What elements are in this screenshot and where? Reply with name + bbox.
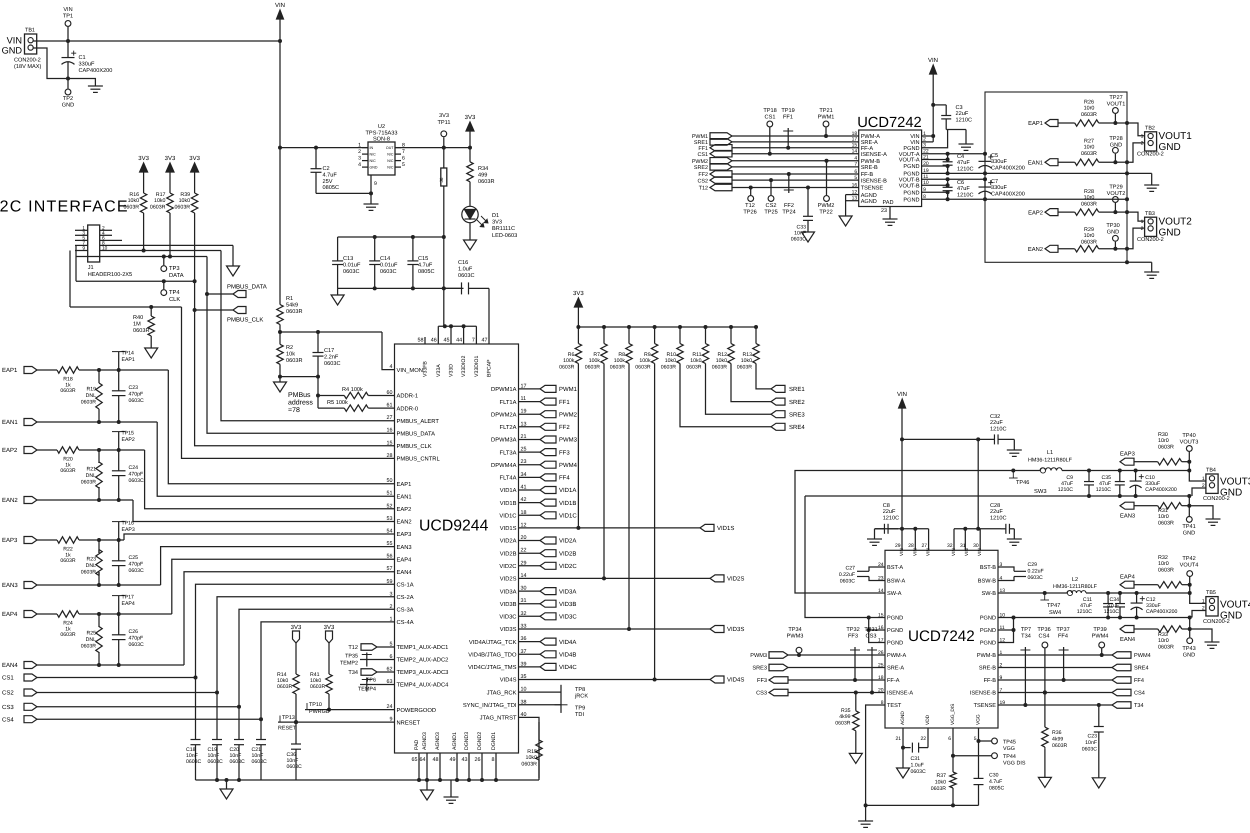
svg-text:R31: R31 (1158, 508, 1168, 514)
svg-text:TP14: TP14 (122, 351, 135, 357)
svg-text:0603R: 0603R (931, 786, 947, 792)
svg-text:0603R: 0603R (60, 558, 76, 564)
svg-text:0603C: 0603C (791, 237, 807, 243)
svg-text:EAN4: EAN4 (1120, 637, 1136, 643)
svg-text:C24: C24 (129, 465, 139, 471)
svg-text:R40: R40 (133, 315, 143, 321)
svg-text:VID2S: VID2S (727, 576, 744, 583)
svg-text:29: 29 (895, 543, 901, 549)
svg-text:0603R: 0603R (559, 364, 575, 370)
svg-text:TP16: TP16 (122, 521, 135, 527)
svg-text:TP13: TP13 (282, 715, 295, 721)
svg-text:ISENSE-B: ISENSE-B (861, 178, 887, 184)
svg-text:10k0: 10k0 (154, 198, 166, 204)
svg-text:R16: R16 (129, 192, 139, 198)
svg-text:10k0: 10k0 (179, 198, 191, 204)
svg-text:0603C: 0603C (129, 398, 145, 404)
svg-text:EAN4: EAN4 (397, 570, 413, 576)
svg-text:EAP1: EAP1 (122, 357, 135, 363)
svg-text:PGND: PGND (903, 164, 919, 170)
svg-text:VID2C: VID2C (499, 563, 516, 570)
svg-text:TDI: TDI (575, 712, 584, 718)
svg-text:0603R: 0603R (1158, 520, 1174, 526)
svg-text:AGND3: AGND3 (422, 732, 428, 750)
svg-text:27: 27 (387, 415, 393, 421)
svg-text:0603R: 0603R (81, 569, 97, 575)
svg-text:R37: R37 (936, 773, 946, 779)
svg-text:JTAG_NTRST: JTAG_NTRST (480, 715, 517, 722)
svg-text:1210C: 1210C (957, 166, 973, 172)
svg-text:TP37: TP37 (1056, 627, 1069, 633)
svg-text:10k0: 10k0 (741, 358, 752, 364)
svg-text:3V3: 3V3 (138, 155, 149, 162)
svg-text:CS1: CS1 (765, 115, 776, 121)
svg-text:PMBus: PMBus (288, 392, 311, 399)
svg-text:VID4S: VID4S (500, 677, 517, 684)
svg-text:47uF: 47uF (957, 160, 970, 166)
svg-text:0603R: 0603R (1052, 743, 1068, 749)
svg-text:FF-B: FF-B (861, 172, 874, 178)
svg-text:SW3: SW3 (1034, 488, 1047, 495)
svg-text:FF4: FF4 (559, 475, 570, 482)
svg-text:0603C: 0603C (208, 759, 224, 765)
svg-text:100k: 100k (589, 358, 601, 364)
svg-text:R29: R29 (1084, 227, 1094, 233)
svg-text:0805C: 0805C (323, 185, 339, 191)
svg-text:VOUT2: VOUT2 (1107, 191, 1126, 197)
svg-text:CON200-2: CON200-2 (1203, 496, 1230, 502)
svg-text:CS4: CS4 (1039, 634, 1050, 640)
svg-text:0603R: 0603R (835, 720, 851, 726)
svg-text:VGG: VGG (976, 714, 982, 725)
svg-text:PAD: PAD (882, 200, 893, 206)
svg-text:C32: C32 (990, 414, 1000, 420)
svg-text:48: 48 (433, 757, 439, 763)
svg-text:HEADER100-2X5: HEADER100-2X5 (88, 272, 132, 278)
svg-text:D1: D1 (492, 213, 499, 219)
svg-text:CS3: CS3 (2, 704, 14, 711)
svg-text:RESET: RESET (278, 726, 297, 732)
svg-text:FF3: FF3 (848, 634, 858, 640)
svg-text:EAP3: EAP3 (2, 537, 18, 544)
svg-text:PWM1: PWM1 (559, 386, 578, 393)
svg-text:VID1C: VID1C (559, 513, 577, 520)
svg-text:TEMP4_AUX-ADC4: TEMP4_AUX-ADC4 (397, 682, 450, 689)
svg-text:R10: R10 (666, 352, 676, 358)
svg-text:TP4: TP4 (169, 290, 180, 296)
svg-text:46: 46 (431, 338, 437, 344)
svg-text:22uF: 22uF (990, 509, 1003, 515)
svg-text:100k: 100k (614, 358, 626, 364)
svg-text:VDD: VDD (925, 714, 931, 725)
svg-text:499: 499 (478, 172, 487, 178)
svg-text:TP47: TP47 (1047, 603, 1060, 609)
svg-text:SRE3: SRE3 (789, 411, 805, 418)
svg-text:V33A: V33A (436, 364, 442, 377)
svg-text:5: 5 (402, 162, 405, 168)
svg-text:SON-8: SON-8 (373, 137, 390, 143)
svg-text:R23: R23 (86, 557, 96, 563)
svg-text:0603R: 0603R (686, 364, 702, 370)
svg-text:TP6: TP6 (366, 678, 376, 684)
svg-text:EAN2: EAN2 (397, 519, 412, 526)
svg-text:10k0: 10k0 (690, 358, 701, 364)
svg-text:TB2: TB2 (1145, 126, 1155, 132)
svg-text:CS1: CS1 (2, 675, 14, 682)
svg-text:49: 49 (450, 757, 456, 763)
svg-text:64: 64 (420, 757, 426, 763)
svg-text:DNL: DNL (86, 563, 96, 569)
svg-text:VID3B: VID3B (500, 601, 517, 608)
svg-text:EAP2: EAP2 (1028, 209, 1043, 216)
svg-text:0.22uF: 0.22uF (839, 572, 855, 578)
svg-text:R39: R39 (180, 192, 190, 198)
svg-text:AGND3: AGND3 (435, 732, 441, 750)
svg-text:V33DIO2: V33DIO2 (461, 356, 467, 377)
svg-text:6: 6 (402, 156, 405, 162)
svg-text:22uF: 22uF (883, 509, 896, 515)
svg-text:VID3C: VID3C (559, 614, 577, 621)
svg-text:10r0: 10r0 (1084, 195, 1095, 201)
svg-text:GND: GND (1183, 653, 1195, 659)
svg-text:0603R: 0603R (310, 684, 326, 690)
svg-text:R17: R17 (156, 192, 166, 198)
svg-text:0603C: 0603C (252, 759, 268, 765)
svg-text:PMBUS_ALERT: PMBUS_ALERT (397, 418, 440, 425)
svg-text:0603C: 0603C (230, 759, 246, 765)
svg-text:0603C: 0603C (380, 269, 396, 275)
svg-text:PMBUS_DATA: PMBUS_DATA (227, 284, 267, 291)
svg-text:VID2A: VID2A (500, 538, 517, 545)
svg-text:VIN: VIN (928, 57, 938, 64)
svg-text:SRE-B: SRE-B (861, 165, 878, 171)
svg-text:C23: C23 (129, 385, 139, 391)
svg-text:TP35: TP35 (345, 654, 358, 660)
svg-text:U2: U2 (378, 124, 385, 130)
svg-text:DPWM3A: DPWM3A (491, 437, 517, 444)
svg-text:30: 30 (973, 543, 979, 549)
svg-text:0603C: 0603C (911, 769, 927, 775)
svg-text:R6: R6 (568, 352, 575, 358)
svg-text:VID3C: VID3C (499, 614, 516, 621)
svg-text:470pF: 470pF (129, 471, 144, 477)
svg-text:FF4: FF4 (1134, 678, 1144, 684)
svg-text:470pF: 470pF (129, 635, 144, 641)
svg-text:TP43: TP43 (1182, 646, 1195, 652)
svg-text:SRE-B: SRE-B (979, 666, 996, 672)
svg-text:EAP2: EAP2 (122, 437, 135, 443)
svg-text:=78: =78 (288, 407, 300, 414)
svg-text:0603C: 0603C (129, 642, 145, 648)
svg-text:ISENSE-B: ISENSE-B (970, 691, 996, 697)
svg-text:EAN3: EAN3 (2, 582, 18, 589)
svg-text:FF1: FF1 (559, 399, 570, 406)
svg-text:DGND2: DGND2 (477, 732, 483, 750)
svg-text:C25: C25 (129, 555, 139, 561)
svg-text:I2C INTERFACE: I2C INTERFACE (0, 199, 129, 216)
svg-text:TB3: TB3 (1145, 211, 1155, 217)
svg-text:10nF: 10nF (1085, 740, 1097, 746)
svg-text:0603R: 0603R (60, 632, 76, 638)
svg-text:3: 3 (358, 156, 361, 162)
svg-text:0603R: 0603R (1081, 112, 1097, 118)
svg-text:EAP3: EAP3 (397, 531, 412, 538)
svg-text:23: 23 (881, 208, 887, 214)
svg-text:3V3: 3V3 (324, 624, 335, 631)
svg-text:VIN: VIN (7, 36, 22, 46)
svg-text:0603R: 0603R (286, 309, 302, 315)
svg-text:1210C: 1210C (956, 117, 972, 123)
svg-text:EAN3: EAN3 (1120, 513, 1135, 520)
svg-text:NRESET: NRESET (397, 719, 421, 726)
svg-text:jRCK: jRCK (574, 693, 588, 700)
svg-text:C26: C26 (129, 629, 139, 635)
svg-text:BPCAP: BPCAP (487, 359, 493, 377)
svg-text:VID2B: VID2B (559, 550, 576, 557)
svg-text:0603R: 0603R (1158, 567, 1174, 573)
svg-text:TP45: TP45 (1003, 740, 1016, 746)
svg-text:PWM2: PWM2 (559, 411, 578, 418)
svg-text:R9: R9 (644, 352, 651, 358)
svg-text:1: 1 (1141, 134, 1144, 140)
svg-text:VIN_MON: VIN_MON (397, 367, 423, 374)
svg-text:28: 28 (387, 453, 393, 459)
svg-text:TP1: TP1 (63, 14, 73, 20)
svg-text:J6: J6 (439, 177, 444, 182)
svg-text:C7: C7 (991, 179, 998, 185)
svg-text:VID1A: VID1A (559, 487, 576, 494)
svg-text:0603R: 0603R (133, 328, 149, 334)
svg-text:R4 100k: R4 100k (342, 386, 363, 393)
svg-text:26: 26 (475, 757, 481, 763)
svg-text:PGND: PGND (980, 616, 996, 622)
svg-text:CS2: CS2 (698, 178, 709, 184)
svg-text:PGND: PGND (887, 616, 903, 622)
svg-text:0603C: 0603C (129, 478, 145, 484)
svg-text:TP8: TP8 (575, 687, 585, 693)
svg-text:CAP400X200: CAP400X200 (991, 165, 1025, 171)
svg-text:44: 44 (456, 338, 462, 344)
svg-text:VID2C: VID2C (559, 563, 577, 570)
svg-text:TSENSE: TSENSE (974, 703, 997, 709)
svg-text:DGND1: DGND1 (491, 732, 497, 750)
svg-text:4k99: 4k99 (1052, 736, 1063, 742)
svg-text:CS3: CS3 (756, 691, 767, 697)
svg-text:CON200-2: CON200-2 (1137, 237, 1164, 243)
svg-text:BSW-B: BSW-B (978, 579, 997, 585)
svg-text:TP34: TP34 (788, 627, 801, 633)
svg-text:CS1: CS1 (698, 152, 709, 158)
svg-text:FF1: FF1 (783, 115, 793, 121)
svg-text:C30: C30 (989, 773, 999, 779)
svg-text:T34: T34 (348, 670, 358, 676)
svg-text:CS-4A: CS-4A (397, 619, 414, 626)
svg-text:R12: R12 (717, 352, 727, 358)
svg-text:7: 7 (82, 240, 85, 246)
svg-text:1.0uF: 1.0uF (458, 266, 473, 272)
svg-text:EAP3: EAP3 (1120, 451, 1135, 458)
svg-text:TP46: TP46 (1016, 480, 1029, 486)
svg-text:TP26: TP26 (743, 210, 756, 216)
svg-text:R34: R34 (478, 166, 488, 172)
svg-text:32: 32 (947, 543, 953, 549)
svg-text:BR1111C: BR1111C (492, 226, 515, 232)
svg-text:PMBUS_CLK: PMBUS_CLK (397, 443, 432, 450)
svg-text:61: 61 (387, 403, 393, 409)
svg-text:GND: GND (62, 103, 74, 109)
svg-text:4.7uF: 4.7uF (989, 779, 1002, 785)
svg-text:C28: C28 (990, 503, 1000, 509)
svg-text:1210C: 1210C (957, 192, 973, 198)
svg-text:TSENSE: TSENSE (861, 186, 884, 192)
svg-text:4: 4 (390, 364, 393, 370)
svg-text:EAN1: EAN1 (1028, 160, 1043, 166)
svg-text:47uF: 47uF (957, 186, 970, 192)
svg-text:10k0: 10k0 (128, 198, 140, 204)
svg-text:2.2nF: 2.2nF (324, 354, 339, 360)
svg-text:OUT: OUT (386, 146, 394, 150)
svg-text:VOUT4: VOUT4 (1180, 563, 1199, 569)
svg-text:0603R: 0603R (81, 399, 97, 405)
svg-text:EAP3: EAP3 (122, 527, 135, 533)
svg-text:0805C: 0805C (418, 269, 434, 275)
svg-text:10k: 10k (286, 350, 295, 357)
svg-text:0603R: 0603R (521, 761, 537, 767)
svg-text:22uF: 22uF (990, 420, 1003, 426)
svg-text:0603C: 0603C (840, 578, 856, 584)
svg-text:R28: R28 (1084, 189, 1094, 195)
svg-text:HM36-1211R80LF: HM36-1211R80LF (1028, 458, 1073, 464)
svg-text:PGND: PGND (980, 628, 996, 634)
svg-text:TEST: TEST (887, 703, 902, 709)
svg-text:3V3: 3V3 (189, 155, 200, 162)
svg-text:PWM2: PWM2 (692, 159, 708, 165)
svg-text:SW-B: SW-B (981, 591, 996, 597)
svg-text:0603C: 0603C (343, 269, 359, 275)
svg-text:BSW-A: BSW-A (887, 579, 906, 585)
svg-text:21: 21 (895, 736, 901, 742)
svg-text:3V3: 3V3 (439, 113, 449, 119)
svg-text:AGND1: AGND1 (452, 732, 458, 750)
svg-text:EAP4: EAP4 (2, 611, 18, 618)
svg-text:TEMP2_AUX-ADC2: TEMP2_AUX-ADC2 (397, 657, 449, 664)
svg-text:VID4A: VID4A (559, 639, 576, 646)
svg-text:0603R: 0603R (60, 388, 76, 394)
svg-text:CS-1A: CS-1A (397, 582, 414, 589)
svg-text:0603R: 0603R (123, 204, 139, 210)
svg-text:TP24: TP24 (782, 210, 795, 216)
svg-text:GND: GND (1110, 143, 1122, 149)
svg-text:SYNC_IN/JTAG_TDI: SYNC_IN/JTAG_TDI (463, 702, 517, 709)
svg-text:0603C: 0603C (1028, 575, 1044, 581)
svg-text:C15: C15 (418, 256, 428, 262)
svg-text:SRE3: SRE3 (752, 666, 767, 672)
svg-text:1: 1 (1202, 476, 1205, 482)
svg-text:N/C: N/C (387, 153, 394, 157)
svg-text:CS2: CS2 (2, 690, 14, 697)
svg-text:UCD7242: UCD7242 (857, 115, 922, 131)
svg-text:CAP400X200: CAP400X200 (1145, 487, 1177, 493)
svg-text:PWM-A: PWM-A (887, 653, 907, 659)
svg-text:C16: C16 (458, 260, 468, 266)
svg-text:R11: R11 (692, 352, 701, 358)
svg-text:R1: R1 (286, 296, 293, 302)
svg-text:(18V MAX): (18V MAX) (14, 63, 41, 70)
svg-text:CON200-2: CON200-2 (14, 58, 41, 64)
svg-text:C1: C1 (79, 55, 86, 61)
svg-text:SRE4: SRE4 (789, 424, 805, 431)
svg-text:SRE2: SRE2 (694, 165, 708, 171)
svg-text:1210C: 1210C (1058, 487, 1074, 493)
svg-text:VIN: VIN (897, 391, 907, 398)
svg-text:R32: R32 (1158, 555, 1168, 561)
svg-text:VOUT1: VOUT1 (1107, 102, 1126, 108)
svg-text:CLK: CLK (169, 296, 180, 303)
svg-text:EAP1: EAP1 (397, 482, 412, 488)
svg-text:LED-0603: LED-0603 (492, 233, 517, 239)
svg-text:100k: 100k (563, 358, 575, 364)
svg-text:EAP1: EAP1 (2, 367, 18, 374)
svg-text:58: 58 (418, 338, 424, 344)
svg-text:0603C: 0603C (458, 273, 474, 279)
svg-text:N/C: N/C (370, 159, 377, 163)
svg-text:10r0: 10r0 (1084, 145, 1095, 151)
svg-text:VID4B/JTAG_TDO: VID4B/JTAG_TDO (468, 652, 517, 659)
svg-text:0603R: 0603R (1158, 644, 1174, 650)
svg-text:1210C: 1210C (1104, 609, 1120, 615)
svg-text:1M: 1M (133, 321, 141, 327)
svg-text:4: 4 (102, 230, 105, 236)
svg-text:VID2S: VID2S (500, 576, 517, 583)
svg-text:R13: R13 (742, 352, 752, 358)
svg-text:V33D: V33D (449, 364, 455, 377)
svg-text:ISENSE-A: ISENSE-A (861, 152, 887, 158)
svg-text:T34: T34 (1134, 703, 1144, 709)
svg-text:VIN: VIN (275, 2, 285, 9)
svg-text:UCD7242: UCD7242 (908, 628, 975, 645)
svg-text:TB1: TB1 (25, 28, 35, 34)
svg-text:TP27: TP27 (1109, 95, 1122, 101)
svg-text:EAP2: EAP2 (2, 447, 18, 454)
svg-text:TEMP1_AUX-ADC1: TEMP1_AUX-ADC1 (397, 644, 449, 651)
svg-text:60: 60 (387, 390, 393, 396)
svg-text:FLT2A: FLT2A (500, 424, 517, 431)
svg-text:R35: R35 (841, 708, 851, 714)
svg-text:0603C: 0603C (287, 764, 303, 770)
svg-text:TB5: TB5 (1206, 590, 1216, 596)
svg-text:GND: GND (370, 166, 378, 170)
svg-text:2: 2 (358, 149, 361, 155)
svg-text:TP21: TP21 (819, 108, 832, 114)
svg-text:1: 1 (1202, 599, 1205, 605)
svg-text:CON200-2: CON200-2 (1137, 152, 1164, 158)
svg-text:C31: C31 (911, 756, 921, 762)
svg-text:BST-B: BST-B (980, 565, 996, 571)
svg-text:VID2B: VID2B (500, 550, 517, 557)
svg-text:V33FB: V33FB (423, 361, 429, 377)
svg-text:FF4: FF4 (1058, 634, 1068, 640)
svg-text:C8: C8 (883, 503, 890, 509)
svg-text:TP29: TP29 (1109, 185, 1122, 191)
svg-text:AGND: AGND (900, 711, 906, 725)
svg-text:R15: R15 (527, 749, 537, 755)
svg-text:3V3: 3V3 (573, 290, 584, 297)
svg-text:43: 43 (462, 757, 468, 763)
svg-text:0603R: 0603R (286, 358, 302, 364)
svg-text:EAN2: EAN2 (2, 497, 18, 504)
svg-text:T12: T12 (348, 645, 358, 651)
svg-text:ISENSE-A: ISENSE-A (887, 691, 913, 697)
